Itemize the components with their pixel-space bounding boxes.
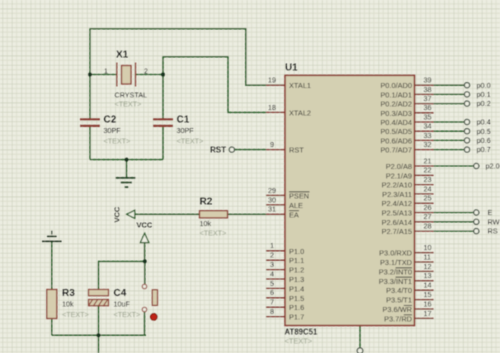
U1 pin 5 (P1.4) stub, number and label xyxy=(266,279,304,294)
svg-text:5: 5 xyxy=(270,279,274,288)
svg-text:p0.4: p0.4 xyxy=(477,118,491,127)
wire: C4 bottom lead to rail and down off-page xyxy=(98,306,100,353)
U1 pin 29 (PSEN) stub, number and label xyxy=(266,186,310,201)
U1 pin 27 (P2.6/A14) stub, number and label xyxy=(382,212,434,227)
svg-text:p0.7: p0.7 xyxy=(477,145,491,154)
terminal p0.6 with wire from U1 xyxy=(434,136,491,145)
svg-text:RST: RST xyxy=(289,146,304,155)
wire: battery symbol down to R3 top xyxy=(51,241,53,289)
wire: crystal right lead xyxy=(136,74,164,76)
wire: C2 top lead xyxy=(89,75,91,119)
wire: C4 top lead up and right to reset node xyxy=(99,261,145,289)
svg-text:16: 16 xyxy=(424,299,432,308)
svg-text:<TEXT>: <TEXT> xyxy=(285,337,313,346)
svg-text:p0.5: p0.5 xyxy=(477,127,491,136)
U1 pin 17 (P3.7/RD) stub, number and label xyxy=(384,309,434,324)
U1 pin 37 (P0.2/AD2) stub, number and label xyxy=(380,94,433,109)
svg-text:24: 24 xyxy=(424,184,432,193)
power symbol (bar style) above R3 xyxy=(42,231,62,242)
svg-text:<TEXT>: <TEXT> xyxy=(114,310,141,319)
U1 pin 21 (P2.0/A8) stub, number and label xyxy=(386,156,434,171)
wire: stub from rail to ground symbol xyxy=(126,160,128,178)
terminal RST input xyxy=(210,145,234,154)
terminal p0.5 with wire from U1 xyxy=(434,127,491,136)
svg-text:P0.0/AD0: P0.0/AD0 xyxy=(380,81,412,90)
U1 pin 34 (P0.5/AD5) stub, number and label xyxy=(380,122,433,137)
junction bottom rail / C4 xyxy=(97,333,101,337)
svg-text:1: 1 xyxy=(270,241,274,250)
svg-text:C1: C1 xyxy=(177,115,190,126)
junction reset node (VCC arrow, C4, button) xyxy=(143,259,147,263)
junction crystal right / C1 / XTAL2 xyxy=(161,73,165,77)
svg-text:15: 15 xyxy=(424,290,432,299)
svg-text:RS: RS xyxy=(488,227,498,236)
U1 pin 16 (P3.6/WR) stub, number and label xyxy=(382,299,433,314)
svg-text:P0.2/AD2: P0.2/AD2 xyxy=(380,100,412,109)
svg-text:30: 30 xyxy=(268,195,276,204)
U1 pin 19 (XTAL1) stub, number and label xyxy=(266,76,311,91)
junction ground rail xyxy=(125,158,129,162)
U1 pin 32 (P0.7/AD7) stub, number and label xyxy=(380,140,433,155)
svg-text:19: 19 xyxy=(268,76,276,85)
svg-text:<TEXT>: <TEXT> xyxy=(62,310,89,319)
svg-text:38: 38 xyxy=(424,85,432,94)
svg-text:P3.6/WR: P3.6/WR xyxy=(382,305,412,314)
svg-text:10k: 10k xyxy=(200,219,212,228)
svg-text:ALE: ALE xyxy=(289,201,303,210)
U1 pin 7 (P1.6) stub, number and label xyxy=(266,298,304,313)
svg-text:P3.5/T1: P3.5/T1 xyxy=(386,296,412,305)
U1 pin 15 (P3.5/T1) stub, number and label xyxy=(386,290,433,305)
svg-text:EA: EA xyxy=(289,210,299,219)
wire: bottom rail R3 to button xyxy=(52,334,146,336)
svg-text:P3.7/RD: P3.7/RD xyxy=(384,314,412,323)
U1 pin 26 (P2.5/A13) stub, number and label xyxy=(382,203,434,218)
svg-text:32: 32 xyxy=(424,140,432,149)
svg-text:PSEN: PSEN xyxy=(289,191,309,200)
svg-text:30PF: 30PF xyxy=(104,126,122,135)
wire: XTAL2 net from crystal right junction up/over/down to U1 pin 18 xyxy=(163,57,266,113)
svg-text:10uF: 10uF xyxy=(114,300,131,309)
button red indicator dot xyxy=(150,314,157,321)
svg-text:P0.1/AD1: P0.1/AD1 xyxy=(380,90,412,99)
U1 pin 12 (P3.2/INT0) stub, number and label xyxy=(379,262,434,277)
svg-text:3: 3 xyxy=(270,260,274,269)
svg-text:28: 28 xyxy=(424,222,432,231)
svg-text:P2.0/A8: P2.0/A8 xyxy=(386,162,412,171)
terminal RS with wire from U1 xyxy=(434,227,498,236)
U1 pin 35 (P0.4/AD4) stub, number and label xyxy=(380,112,433,127)
svg-text:p0.0: p0.0 xyxy=(477,81,491,90)
svg-text:34: 34 xyxy=(424,122,432,131)
wire: R2 right lead to U1 pin 31 (EA) xyxy=(228,213,267,215)
svg-text:P1.7: P1.7 xyxy=(289,313,304,322)
svg-text:AT89C51: AT89C51 xyxy=(285,328,318,337)
svg-text:23: 23 xyxy=(424,175,432,184)
U1 pin 28 (P2.7/A15) stub, number and label xyxy=(382,222,434,237)
terminal p0.1 with wire from U1 xyxy=(434,90,491,99)
svg-text:<TEXT>: <TEXT> xyxy=(115,100,142,109)
svg-text:XTAL2: XTAL2 xyxy=(289,108,311,117)
svg-text:E: E xyxy=(488,208,493,217)
svg-text:P2.2/A10: P2.2/A10 xyxy=(382,181,412,190)
svg-text:XTAL1: XTAL1 xyxy=(289,81,311,90)
wire: C1 bottom lead xyxy=(162,126,164,159)
svg-text:39: 39 xyxy=(424,76,432,85)
wire: U1 pin 20 down to ground terminal xyxy=(359,326,361,348)
svg-text:P1.3: P1.3 xyxy=(289,275,304,284)
svg-text:p0.1: p0.1 xyxy=(477,90,491,99)
svg-text:VCC: VCC xyxy=(113,206,122,222)
svg-text:p0.2: p0.2 xyxy=(477,99,491,108)
U1 pin 30 (ALE) stub, number and label xyxy=(266,195,303,210)
svg-text:P2.5/A13: P2.5/A13 xyxy=(382,209,412,218)
power symbol VCC (up arrow) for reset network xyxy=(137,221,153,243)
svg-text:P2.4/A12: P2.4/A12 xyxy=(382,199,412,208)
ground symbol below C1/C2 rail xyxy=(116,178,136,187)
svg-text:10k: 10k xyxy=(62,300,74,309)
capacitor C1 30PF xyxy=(153,115,203,146)
svg-text:18: 18 xyxy=(268,103,276,112)
svg-text:26: 26 xyxy=(424,203,432,212)
push button (reset switch) xyxy=(142,284,157,320)
U1 pin 36 (P0.3/AD3) stub, number and label xyxy=(380,103,433,118)
power symbol VCC (left-pointing arrow) feeding R2 xyxy=(113,206,135,222)
capacitor C4 10uF electrolytic xyxy=(89,288,141,319)
svg-text:VCC: VCC xyxy=(137,221,153,230)
svg-text:P1.5: P1.5 xyxy=(289,294,304,303)
svg-text:P3.0/RXD: P3.0/RXD xyxy=(379,249,412,258)
terminal RW with wire from U1 xyxy=(434,217,500,226)
U1 pin 31 (EA) stub, number and label xyxy=(266,205,299,220)
U1 pin 14 (P3.4/T0) stub, number and label xyxy=(386,281,433,296)
U1 pin 38 (P0.1/AD1) stub, number and label xyxy=(380,85,433,100)
wire: VCC up-arrow stem to reset node xyxy=(144,243,146,262)
terminal p2.0 with wire from U1 xyxy=(434,162,500,171)
terminal p0.0 with wire from U1 xyxy=(434,81,491,90)
svg-text:P1.1: P1.1 xyxy=(289,256,304,265)
terminal p0.7 with wire from U1 xyxy=(434,145,491,154)
U1 pin 8 (P1.7) stub, number and label xyxy=(266,307,304,322)
svg-text:P2.1/A9: P2.1/A9 xyxy=(386,171,412,180)
svg-text:7: 7 xyxy=(270,298,274,307)
svg-text:21: 21 xyxy=(424,156,432,165)
U1 pin 6 (P1.5) stub, number and label xyxy=(266,288,304,303)
crystal X1 xyxy=(104,50,148,109)
U1 pin 10 (P3.0/RXD) stub, number and label xyxy=(379,243,433,258)
svg-text:RW: RW xyxy=(488,217,500,226)
svg-text:14: 14 xyxy=(424,281,432,290)
svg-text:R3: R3 xyxy=(62,288,75,299)
svg-text:U1: U1 xyxy=(285,63,298,74)
svg-text:25: 25 xyxy=(424,194,432,203)
U1 pin 2 (P1.1) stub, number and label xyxy=(266,251,304,266)
U1 pin 25 (P2.4/A12) stub, number and label xyxy=(382,194,434,209)
svg-text:29: 29 xyxy=(268,186,276,195)
svg-text:10: 10 xyxy=(424,243,432,252)
svg-text:P2.6/A14: P2.6/A14 xyxy=(382,218,412,227)
svg-text:P1.6: P1.6 xyxy=(289,303,304,312)
svg-text:P1.0: P1.0 xyxy=(289,247,304,256)
svg-text:33: 33 xyxy=(424,131,432,140)
svg-text:12: 12 xyxy=(424,262,432,271)
wire: VCC arrow to R2 left lead xyxy=(135,213,200,215)
svg-text:P3.2/INT0: P3.2/INT0 xyxy=(379,267,412,276)
U1 pin 24 (P2.3/A11) stub, number and label xyxy=(382,184,433,199)
svg-text:X1: X1 xyxy=(116,50,129,61)
svg-text:P0.4/AD4: P0.4/AD4 xyxy=(380,118,412,127)
wire: reset node down to button top xyxy=(144,261,146,284)
U1 pin 22 (P2.1/A9) stub, number and label xyxy=(386,166,434,181)
terminal: ground terminal below U1 pin 20 (cut off at page edge) xyxy=(357,348,363,353)
svg-text:P2.3/A11: P2.3/A11 xyxy=(382,190,412,199)
svg-text:p0.6: p0.6 xyxy=(477,136,491,145)
U1 pin 39 (P0.0/AD0) stub, number and label xyxy=(380,76,433,91)
svg-text:17: 17 xyxy=(424,309,432,318)
svg-text:11: 11 xyxy=(424,252,431,261)
svg-text:6: 6 xyxy=(270,288,274,297)
capacitor C2 30PF xyxy=(80,115,130,146)
svg-text:9: 9 xyxy=(270,140,274,149)
svg-text:R2: R2 xyxy=(200,197,213,208)
wire: XTAL1 net from crystal left junction up/over/down to U1 pin 19 xyxy=(90,29,266,85)
svg-text:35: 35 xyxy=(424,112,432,121)
U1 pin 13 (P3.3/INT1) stub, number and label xyxy=(379,271,434,286)
U1 pin 1 (P1.0) stub, number and label xyxy=(266,241,304,256)
U1 pin 3 (P1.2) stub, number and label xyxy=(266,260,304,275)
svg-text:C4: C4 xyxy=(114,288,127,299)
svg-text:P3.3/INT1: P3.3/INT1 xyxy=(379,277,412,286)
svg-text:C2: C2 xyxy=(104,115,117,126)
svg-text:P3.4/T0: P3.4/T0 xyxy=(386,286,412,295)
U1 pin 4 (P1.3) stub, number and label xyxy=(266,269,304,284)
svg-text:P0.5/AD5: P0.5/AD5 xyxy=(380,127,412,136)
wire: R3 bottom to bottom rail xyxy=(51,319,53,336)
terminal E with wire from U1 xyxy=(434,208,493,217)
svg-text:37: 37 xyxy=(424,94,432,103)
U1 pin 11 (P3.1/TXD) stub, number and label xyxy=(380,252,434,267)
wire: ground rail under C1/C2 xyxy=(90,159,163,161)
svg-text:4: 4 xyxy=(270,269,274,278)
terminal p0.2 with wire from U1 xyxy=(434,99,491,108)
svg-text:RST: RST xyxy=(210,145,226,154)
svg-text:36: 36 xyxy=(424,103,432,112)
svg-text:P0.7/AD7: P0.7/AD7 xyxy=(380,146,412,155)
svg-text:31: 31 xyxy=(268,205,276,214)
svg-text:P1.4: P1.4 xyxy=(289,284,304,293)
U1 pin 18 (XTAL2) stub, number and label xyxy=(266,103,311,118)
svg-text:P1.2: P1.2 xyxy=(289,266,304,275)
svg-text:P0.3/AD3: P0.3/AD3 xyxy=(380,109,412,118)
wire: C2 bottom lead xyxy=(89,126,91,159)
junction crystal left / C2 / XTAL1 xyxy=(88,73,92,77)
svg-text:P3.1/TXD: P3.1/TXD xyxy=(380,258,412,267)
svg-text:1: 1 xyxy=(104,69,108,76)
svg-text:p2.0: p2.0 xyxy=(486,162,500,171)
wire: RST terminal to U1 pin 9 xyxy=(234,149,266,151)
U1 pin 23 (P2.2/A10) stub, number and label xyxy=(382,175,434,190)
wire: C1 top lead xyxy=(162,75,164,119)
svg-text:8: 8 xyxy=(270,307,274,316)
wire: crystal left lead xyxy=(90,74,117,76)
IC U1: AT89C51 microcontroller body xyxy=(285,75,415,325)
svg-text:30PF: 30PF xyxy=(177,126,195,135)
svg-text:<TEXT>: <TEXT> xyxy=(104,137,131,146)
resistor R3 10k xyxy=(47,288,89,319)
wire: button bottom to rail xyxy=(144,312,146,335)
svg-text:<TEXT>: <TEXT> xyxy=(177,137,204,146)
svg-text:22: 22 xyxy=(424,166,432,175)
terminal p0.4 with wire from U1 xyxy=(434,118,491,127)
svg-text:P0.6/AD6: P0.6/AD6 xyxy=(380,136,412,145)
svg-text:2: 2 xyxy=(144,69,148,76)
svg-text:CRYSTAL: CRYSTAL xyxy=(115,91,148,100)
svg-text:2: 2 xyxy=(270,251,274,260)
U1 pin 9 (RST) stub, number and label xyxy=(266,140,304,155)
U1 pin 33 (P0.6/AD6) stub, number and label xyxy=(380,131,433,146)
svg-text:27: 27 xyxy=(424,212,432,221)
resistor R2 10k xyxy=(200,197,228,238)
svg-text:<TEXT>: <TEXT> xyxy=(200,229,227,238)
svg-text:P2.7/A15: P2.7/A15 xyxy=(382,227,412,236)
svg-text:13: 13 xyxy=(424,271,432,280)
